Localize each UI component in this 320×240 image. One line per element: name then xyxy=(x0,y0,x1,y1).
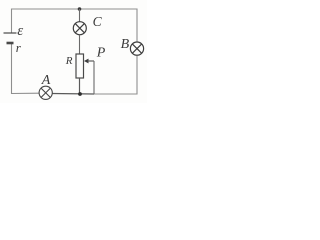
node junction dot top (lamp C branch tap) xyxy=(78,7,82,11)
wire left upper (battery + lead) xyxy=(11,9,13,34)
wire bottom middle (lamp A to junction) xyxy=(52,93,94,96)
wire stub from top wire to lamp C xyxy=(79,9,81,22)
wire stub lamp C to rheostat R xyxy=(79,35,81,54)
svg-text:A: A xyxy=(41,73,51,88)
wiper arrow P (slider contact) xyxy=(84,59,89,64)
battery cell (emf source) xyxy=(4,33,17,43)
svg-text:R: R xyxy=(65,55,73,67)
svg-text:ε: ε xyxy=(17,23,23,39)
wire left lower (battery - lead) xyxy=(11,43,13,94)
wire wiper vertical down to bottom wire xyxy=(93,61,95,94)
lamp C xyxy=(73,22,86,35)
rheostat R (resistor body) xyxy=(76,54,84,78)
svg-text:P: P xyxy=(96,46,106,61)
lamp A xyxy=(39,86,52,99)
wire wiper horizontal xyxy=(88,60,95,62)
wire top (node from battery + to lamps) xyxy=(12,8,138,10)
wire bottom left (to lamp A) xyxy=(11,92,40,94)
wire right upper (top to lamp B) xyxy=(136,9,138,43)
lamp B xyxy=(130,42,143,55)
wire stub rheostat bottom to bottom wire xyxy=(79,78,81,94)
wire bottom right (junction to lamp B branch) xyxy=(94,93,138,95)
wire right lower (lamp B to bottom) xyxy=(136,55,138,95)
svg-text:B: B xyxy=(121,37,130,52)
node junction dot bottom (R bottom to bottom wire) xyxy=(78,92,82,96)
svg-text:C: C xyxy=(93,14,103,29)
